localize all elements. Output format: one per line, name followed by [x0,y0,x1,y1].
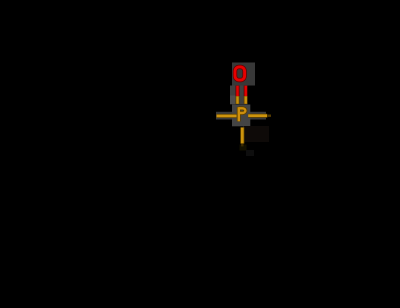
double bond P=O (gold half near P) [238,96,246,104]
double bond P=O (red half near O) [238,86,246,97]
bond P-C down dim tail [241,144,243,147]
atom label P [239,107,246,121]
compression haze right of down bond [244,127,250,142]
compression haze band along horizontal bonds [216,112,266,120]
compression haze behind O=P double bond [230,86,248,105]
bond P-C down (half near P) [240,127,244,143]
compression haze behind O label [232,63,255,86]
bond P-C right (half near P) [248,114,267,118]
compression haze behind P label [232,105,250,127]
very faint bleed region below bonds [244,126,269,142]
atom label O [235,67,245,80]
faint smudge below structure [240,145,247,151]
bond P-C left (half near P) [216,114,236,118]
bond P-C right dim tail [267,114,271,116]
